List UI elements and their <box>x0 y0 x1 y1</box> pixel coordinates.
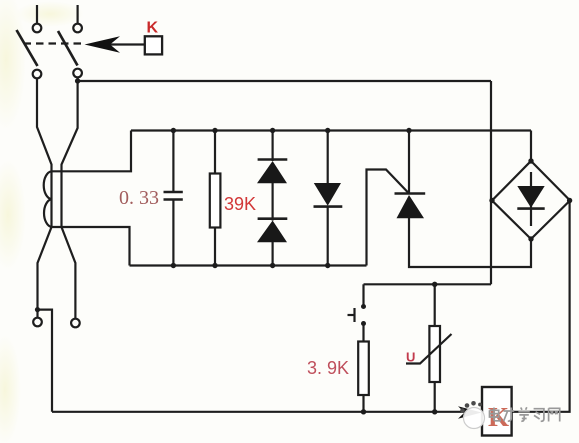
switch K contact circle top-left <box>33 24 42 33</box>
test button SB actuator <box>348 308 355 322</box>
wire: CT secondary top lead to box <box>52 131 132 172</box>
mechanical linkage dashed line <box>24 42 85 44</box>
wire: zener pair bottom lead <box>272 242 274 266</box>
junction: bottom bus / diode D3 <box>325 263 330 268</box>
junction: bottom rail / 3.9K <box>361 409 366 414</box>
wire: test button bottom lead <box>362 324 364 342</box>
wire: bottom bus of rectifier network <box>130 264 367 266</box>
wire: test button top lead <box>362 284 364 306</box>
varistor RV diagonal stroke <box>406 334 452 364</box>
wire: zener pair top lead <box>272 131 274 162</box>
junction: top bus / zener pair <box>270 128 275 133</box>
bridge internal diode axis <box>530 172 532 226</box>
junction: left output tap <box>35 307 40 312</box>
diode D2 cathode bar <box>258 217 288 220</box>
switch K contact circle top-right <box>73 24 82 33</box>
wire: varistor bottom lead <box>434 382 436 412</box>
watermark text dian li xue xi wang <box>490 407 560 421</box>
actuating arrowhead on linkage <box>85 36 121 53</box>
wire: left phase down to CT <box>37 79 52 172</box>
junction: bottom bus / resistor <box>212 263 217 268</box>
junction: bridge right vertex <box>567 198 572 203</box>
bridge rectifier diamond <box>492 161 570 239</box>
junction: top bus / diode D3 <box>325 128 330 133</box>
diode D3 triangle <box>314 183 341 206</box>
CT secondary winding arcs <box>44 171 52 227</box>
wire: resistor 39K bottom lead <box>214 228 216 266</box>
wire: bridge top vertex to top bus <box>530 131 532 162</box>
wire: left CT core conductor <box>38 171 52 317</box>
junction: varistor top <box>432 282 437 287</box>
wire: resistor 3.9K bottom lead <box>362 395 364 412</box>
svg-text:3. 9K: 3. 9K <box>307 358 349 378</box>
watermark char xue <box>518 407 529 421</box>
actuating arrow shaft from relay K <box>104 43 145 45</box>
arrowhead into relay coil K <box>458 406 482 418</box>
thyristor V cathode bar <box>395 192 426 195</box>
wire: bridge right vertex down to relay <box>512 201 570 412</box>
watermark char dian <box>490 408 501 421</box>
wire: between D1 and D2 <box>272 183 274 221</box>
bridge internal diode triangle <box>517 186 544 208</box>
diode D1 cathode bar <box>258 158 288 161</box>
wire: mid rail to trip branch <box>364 283 492 285</box>
wire: thyristor V cathode lead <box>408 131 410 194</box>
wire: CT secondary bottom lead to box <box>52 227 130 266</box>
switch K contact circle bottom-left <box>33 70 42 79</box>
wire: right vertical through bridge left vertex <box>490 81 492 284</box>
varistor RV body <box>429 326 440 382</box>
output terminal circle right <box>71 319 80 328</box>
output terminal circle left <box>33 318 42 327</box>
wire: capacitor top lead <box>172 131 174 193</box>
junction: button lower contact <box>361 321 366 326</box>
wire: diode D3 bottom lead <box>327 207 329 266</box>
junction: bridge left vertex <box>489 198 494 203</box>
diode D3 cathode bar <box>314 205 343 208</box>
watermark char li <box>504 408 515 422</box>
junction: bridge bottom vertex <box>528 236 533 241</box>
junction: top bus / thyristor <box>406 128 411 133</box>
diode D1 triangle <box>257 161 287 183</box>
switch K blade left pole <box>17 30 38 66</box>
wire: thyristor anode to bridge bottom vertex <box>409 218 531 267</box>
junction: button upper contact <box>361 304 366 309</box>
wire: top rail from switch to bridge left vertex <box>78 80 491 82</box>
wire: resistor 39K top lead <box>214 131 216 174</box>
wire: capacitor bottom lead <box>172 200 174 266</box>
junction: bridge top vertex <box>528 158 533 163</box>
wire: top bus of rectifier network <box>131 129 531 131</box>
svg-text:K: K <box>147 20 159 37</box>
wire: bottom rail to relay K <box>52 411 470 413</box>
switch K contact circle bottom-right <box>73 69 82 78</box>
junction: bottom bus / zener pair <box>270 263 275 268</box>
junction: bottom bus / capacitor <box>171 263 176 268</box>
wire: diode D3 top lead <box>327 131 329 185</box>
relay K command box top <box>145 36 162 54</box>
svg-text:U: U <box>406 350 415 365</box>
watermark char xi <box>534 409 544 422</box>
wire: thyristor gate lead <box>367 170 410 266</box>
junction: switch rail start <box>75 78 80 83</box>
diode D2 triangle <box>257 221 287 243</box>
wire: left supply stub <box>36 5 38 24</box>
thyristor V triangle <box>397 195 425 218</box>
bridge internal diode bar <box>517 207 544 210</box>
wire: right phase down to CT <box>62 78 78 319</box>
wire: right supply stub <box>76 5 78 24</box>
junction: bottom rail / varistor <box>432 409 437 414</box>
watermark char wang <box>549 408 560 421</box>
watermark logo circle <box>460 401 484 429</box>
switch K blade right pole <box>58 31 78 66</box>
svg-text:39K: 39K <box>224 194 256 214</box>
capacitor C 0.33 plates <box>164 192 183 200</box>
resistor R 39K body <box>210 174 221 228</box>
svg-text:0. 33: 0. 33 <box>119 187 159 209</box>
resistor R 3.9K body <box>358 342 369 396</box>
junction: top bus / capacitor <box>171 128 176 133</box>
relay coil K box <box>482 387 512 436</box>
wire: varistor top lead <box>434 284 436 326</box>
junction: top bus / resistor <box>212 128 217 133</box>
wire: left output tap to bottom rail <box>38 310 53 412</box>
